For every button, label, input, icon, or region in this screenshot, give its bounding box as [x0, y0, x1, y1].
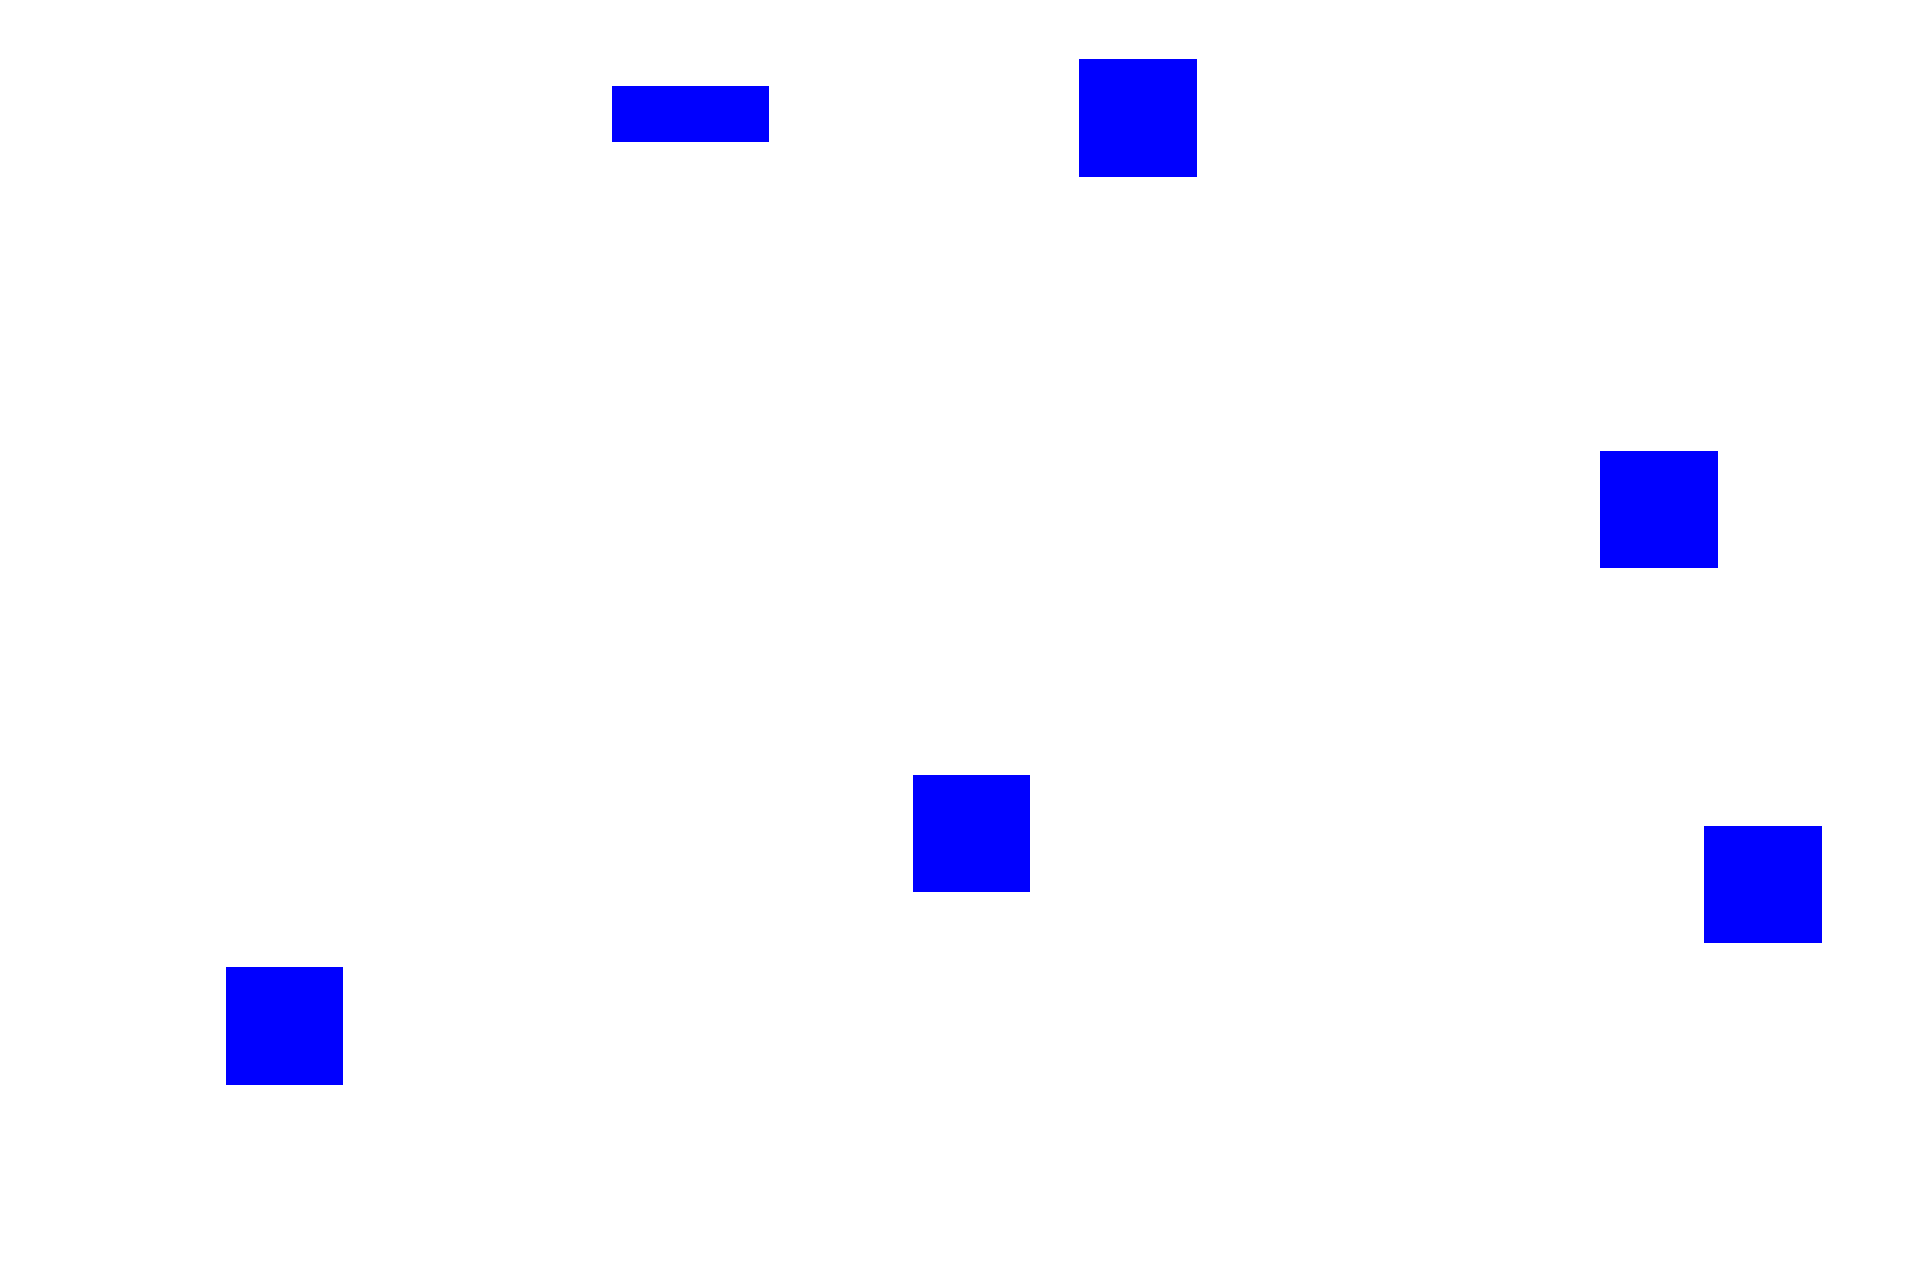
blue square 6 (bottom-left) [226, 967, 343, 1085]
blue square 4 (center-lower) [913, 775, 1030, 892]
blue bar 1 (top-left wide rectangle) [612, 86, 769, 142]
blue square 3 (middle-right) [1600, 451, 1718, 568]
blue square 2 (top-middle) [1079, 59, 1197, 177]
blue square 5 (lower-right) [1704, 826, 1822, 943]
